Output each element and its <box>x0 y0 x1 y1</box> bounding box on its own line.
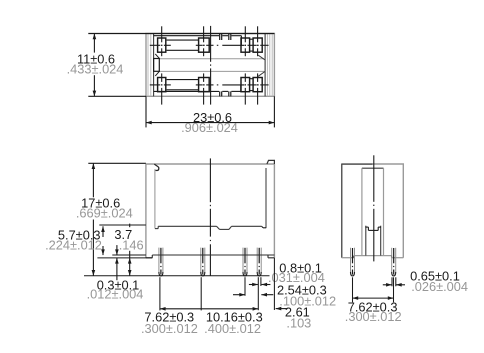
front view: case skirt ledge with center dip <box>155 226 266 229</box>
svg-text:.300±.012: .300±.012 <box>345 309 402 324</box>
dimension 7.62 / 10.16 (front pin spacing) <box>141 277 263 336</box>
terminal pad A1 (top view) <box>158 38 166 52</box>
svg-text:.669±.024: .669±.024 <box>76 206 133 221</box>
side view: inner armature housing <box>362 168 384 255</box>
svg-text:.012±.004: .012±.004 <box>87 286 144 301</box>
svg-text:.300±.012: .300±.012 <box>141 321 198 336</box>
top view: terminal bars row1 <box>167 39 254 51</box>
front view: top left clip hook <box>154 164 159 229</box>
dimension 23±0.6 (top view width) <box>146 96 274 135</box>
pin 2 (front view) <box>201 248 205 276</box>
front view: center line (long, x=210.4) <box>209 158 211 275</box>
svg-text:.400±.012: .400±.012 <box>204 321 261 336</box>
terminal pad B3 (top view) <box>241 78 250 92</box>
svg-text:.433±.024: .433±.024 <box>67 61 124 76</box>
terminal pad B2 (top view) <box>199 78 210 92</box>
pin far (side view) <box>392 248 396 276</box>
top view: row centerlines horizontal (dash-dot) <box>150 45 269 85</box>
dimension 2.61 (edge distance) <box>274 258 311 331</box>
top view: left side tab <box>154 54 160 76</box>
dimension 7.62±0.3 (side pin spacing) <box>345 277 402 324</box>
svg-text:.224±.012: .224±.012 <box>45 238 102 253</box>
side view: case outline with feet <box>342 164 404 258</box>
top view: terminal bars row2 <box>167 79 254 91</box>
dimension 0.3±0.1 (standoff) <box>87 258 144 301</box>
dimension 3.7 <box>114 224 143 276</box>
top view: relay case outline <box>146 34 274 97</box>
terminal pad B1 (top view) <box>158 78 166 92</box>
dimension 0.8±0.1 (pin width, front) <box>249 260 325 310</box>
terminal pad B4 (top view) <box>253 78 262 92</box>
top view: long center line x=210.6 <box>210 26 212 105</box>
front view: base bottom profile with corner feet <box>146 255 275 258</box>
side view: armature channel detail <box>365 226 381 256</box>
dimension 0.65±0.1 (pin thickness, side) <box>383 269 468 294</box>
front view: pcb line L2 <box>97 257 152 259</box>
pin 3 (front view) <box>243 248 247 276</box>
pin 4 (front view) <box>257 248 261 276</box>
terminal pad A2 (top view) <box>199 38 210 52</box>
front view: pin tip line L3 <box>84 275 270 277</box>
top view: terminal detail lines lower <box>154 85 241 96</box>
dimension 2.54±0.3 (pin pitch, front) <box>233 277 336 308</box>
top view: right side chamfer notch <box>258 55 265 76</box>
top view: pin center lines vertical row1 <box>162 26 258 56</box>
front view: top right vent nub <box>267 160 275 164</box>
pin near (side view) <box>351 248 355 276</box>
dimension 17±0.6 (front view height) <box>76 163 146 275</box>
svg-text:.146: .146 <box>119 238 144 253</box>
dimension 11±0.6 (top view height) <box>67 34 275 97</box>
front view: right inner wall <box>265 168 267 228</box>
top view: pin center lines vertical row2 <box>162 73 258 104</box>
side view: vertical center line <box>373 155 375 261</box>
top view: terminal detail lines upper <box>154 34 242 46</box>
terminal pad A3 (top view) <box>241 38 250 52</box>
pin 1 (front view) <box>159 248 163 276</box>
svg-text:.103: .103 <box>286 316 311 331</box>
terminal pad A4 (top view) <box>253 38 262 52</box>
svg-text:.026±.004: .026±.004 <box>411 279 468 294</box>
dimension 5.7±0.3 <box>45 225 146 255</box>
top view: case mold lines <box>159 59 265 72</box>
svg-text:.906±.024: .906±.024 <box>181 120 238 135</box>
front view: seating plane line L1 <box>112 254 274 256</box>
front view: case outline <box>146 164 275 258</box>
